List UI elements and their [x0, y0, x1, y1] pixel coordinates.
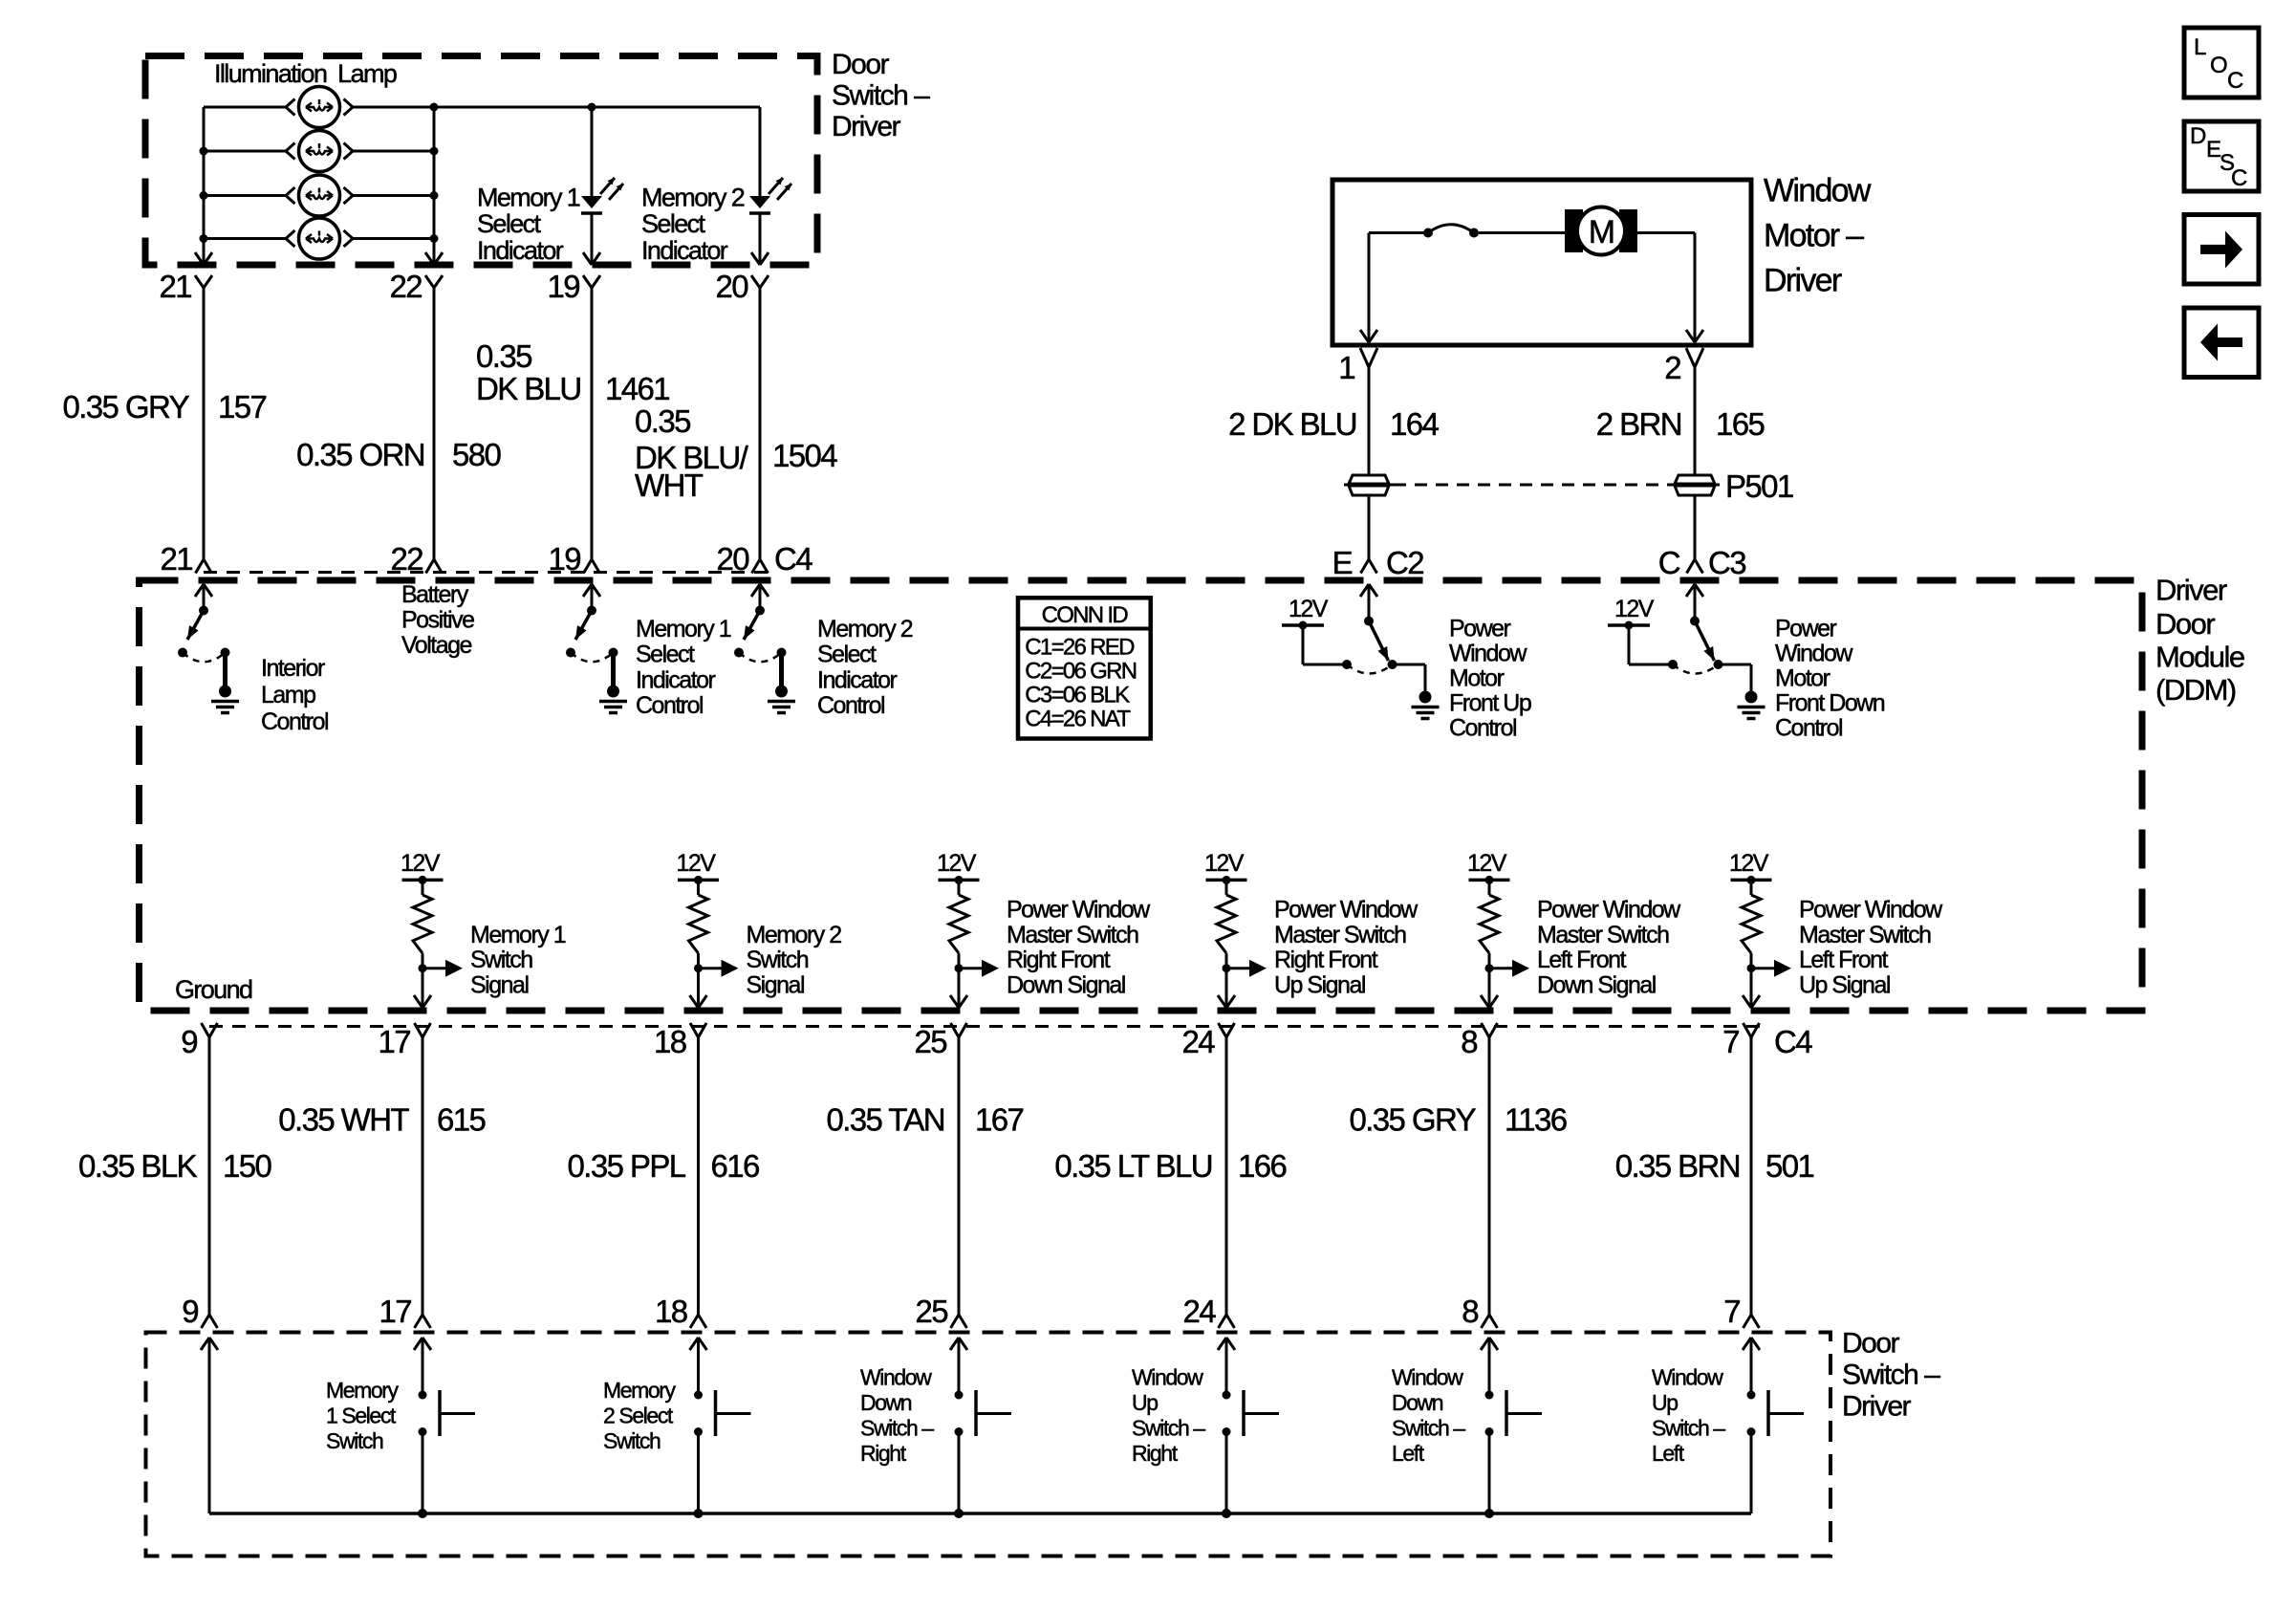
svg-text:Window: Window: [1449, 640, 1527, 666]
svg-text:Window: Window: [1775, 640, 1853, 666]
resistor R24 (pull-up): [1217, 880, 1236, 1008]
signal tap arrow (resistor 24): [1223, 960, 1267, 977]
label: Memory 2 Select Indicator: [641, 184, 745, 265]
svg-text:Voltage: Voltage: [401, 632, 472, 659]
inline connector P501 (left half): [1344, 475, 1394, 495]
label: 0.35 GRY 157: [62, 389, 266, 425]
label: Interior Lamp Control: [261, 655, 328, 735]
svg-text:19: 19: [547, 269, 579, 304]
svg-text:Power Window: Power Window: [1537, 897, 1681, 924]
arrow: wire 17 enters door switch box: [414, 1338, 431, 1350]
label: signal 18: [747, 922, 842, 998]
svg-text:25: 25: [915, 1294, 947, 1329]
label: 0.35 ORN 580: [296, 437, 501, 472]
svg-text:C1=26 RED: C1=26 RED: [1025, 635, 1135, 661]
svg-text:8: 8: [1462, 1294, 1478, 1329]
terminal 17 (door switch box): [379, 1294, 430, 1329]
svg-text:Ground: Ground: [175, 975, 252, 1004]
box: Door Switch - Driver (bottom): [146, 1333, 1831, 1557]
terminal 25 (DDM bottom): [914, 1023, 966, 1059]
svg-text:0.35: 0.35: [635, 403, 690, 439]
svg-text:0.35 PPL: 0.35 PPL: [568, 1148, 686, 1184]
terminal 2 (motor): [1664, 348, 1703, 385]
wire 157 (0.35 GRY) terminal 21 to DDM: [203, 288, 206, 559]
svg-text:0.35 BLK: 0.35 BLK: [78, 1148, 198, 1184]
svg-text:164: 164: [1390, 406, 1440, 442]
svg-text:Select: Select: [636, 642, 695, 668]
LED D1 (Memory 1 select indicator): [581, 178, 623, 265]
svg-text:12V: 12V: [1614, 596, 1655, 622]
svg-text:Control: Control: [817, 692, 884, 719]
arrow: wire 21 exits top box: [195, 252, 212, 265]
lamp L2 (illumination): [204, 131, 434, 172]
svg-text:Switch: Switch: [470, 947, 532, 973]
svg-text:0.35: 0.35: [476, 338, 531, 374]
label: Memory 1 Select Indicator: [477, 184, 580, 265]
svg-text:Memory 2: Memory 2: [641, 184, 745, 212]
svg-text:CONN ID: CONN ID: [1042, 602, 1129, 628]
svg-text:7: 7: [1722, 1024, 1739, 1059]
svg-text:Memory 1: Memory 1: [477, 184, 580, 212]
label: 0.35 BLK 150: [78, 1148, 271, 1184]
svg-text:Switch: Switch: [603, 1428, 661, 1453]
wire 616 (0.35 PPL): [697, 1037, 700, 1315]
arrow: wire 19 enters DDM: [583, 584, 600, 611]
svg-text:Up: Up: [1652, 1390, 1678, 1415]
label: Power Window Motor Front Down Control: [1775, 615, 1885, 741]
resistor R17 (pull-up): [413, 880, 432, 1008]
arrow: wire 20 enters DDM: [751, 584, 769, 611]
svg-text:0.35 BRN: 0.35 BRN: [1615, 1148, 1740, 1184]
svg-text:615: 615: [437, 1102, 486, 1138]
label: signal 7: [1799, 897, 1943, 999]
svg-text:Control: Control: [636, 692, 703, 719]
connector line C4 (DDM top): [204, 571, 770, 574]
label: switch 7: [1652, 1365, 1725, 1467]
label: signal 24: [1274, 897, 1419, 999]
terminal C C3 (DDM top): [1658, 545, 1745, 580]
12V supply (resistor 24): [1204, 850, 1247, 884]
svg-text:Signal: Signal: [470, 971, 529, 998]
svg-text:P501: P501: [1725, 468, 1793, 504]
wire: P501 to DDM terminal C: [1694, 496, 1697, 560]
push button switch 8: [1485, 1338, 1543, 1513]
arrow: wire 22 exits top box: [425, 252, 443, 265]
arrow: wire 19 exits top box: [583, 252, 600, 265]
wire 501 (0.35 BRN): [1750, 1037, 1753, 1315]
label: Illumination Lamp: [214, 59, 397, 88]
svg-text:Module: Module: [2155, 640, 2244, 673]
label: Memory 1 Select Indicator Control: [636, 616, 731, 719]
svg-text:Up Signal: Up Signal: [1274, 971, 1365, 998]
arrow: wire 20 exits top box: [751, 252, 769, 265]
terminal E C2 (DDM top): [1332, 545, 1424, 580]
12V supply (resistor 8): [1467, 850, 1510, 884]
wire 150 (0.35 BLK): [208, 1037, 211, 1315]
arrow: wire 24 enters door switch box: [1218, 1338, 1235, 1350]
terminal 21 (DDM top): [160, 541, 211, 577]
svg-text:Memory 1: Memory 1: [470, 922, 566, 948]
svg-text:Indicator: Indicator: [636, 666, 716, 693]
push button switch 18: [694, 1338, 751, 1513]
terminal 21 (top box bottom): [159, 269, 212, 304]
terminal 17 (DDM bottom): [378, 1023, 430, 1059]
svg-text:Master Switch: Master Switch: [1799, 922, 1931, 948]
wire 167 (0.35 TAN): [958, 1037, 961, 1315]
svg-text:Right: Right: [1132, 1441, 1179, 1466]
circuit breaker (motor internal): [1423, 225, 1479, 238]
svg-text:25: 25: [914, 1024, 946, 1059]
svg-text:Door: Door: [2155, 607, 2215, 641]
svg-text:O: O: [2210, 53, 2228, 78]
svg-text:Window: Window: [1392, 1365, 1463, 1390]
svg-text:Switch –: Switch –: [1652, 1416, 1725, 1441]
svg-text:Driver: Driver: [832, 111, 901, 142]
label: Ground: [175, 975, 252, 1004]
arrow: wire C enters DDM: [1686, 584, 1703, 621]
push button switch 24: [1223, 1338, 1280, 1513]
svg-text:M: M: [1589, 214, 1614, 250]
svg-text:2 Select: 2 Select: [603, 1404, 674, 1428]
arrow: wire 7 enters door switch box: [1743, 1338, 1760, 1350]
wire 166 (0.35 LT BLU): [1225, 1037, 1228, 1315]
label: signal 8: [1537, 897, 1681, 999]
terminal 20 (top box bottom): [715, 269, 769, 304]
svg-text:17: 17: [378, 1024, 410, 1059]
svg-text:Down: Down: [1392, 1390, 1443, 1415]
label: 0.35 WHT 615: [278, 1102, 485, 1138]
svg-text:167: 167: [975, 1102, 1024, 1138]
svg-text:Master Switch: Master Switch: [1007, 922, 1138, 948]
svg-text:D: D: [2190, 123, 2206, 149]
svg-text:Indicator: Indicator: [641, 236, 728, 265]
svg-text:Driver: Driver: [2155, 574, 2227, 607]
svg-text:Right: Right: [860, 1441, 907, 1466]
svg-text:20: 20: [715, 269, 748, 304]
svg-text:C4: C4: [1774, 1024, 1812, 1059]
label: switch 17: [326, 1378, 400, 1453]
wire: motor feed left (inside box): [1369, 233, 1428, 343]
label: Door Switch - Driver (bottom): [1842, 1328, 1940, 1423]
svg-text:9: 9: [182, 1294, 198, 1329]
label: C4 (DDM bottom): [1774, 1024, 1812, 1059]
svg-text:2 DK BLU: 2 DK BLU: [1228, 406, 1356, 442]
wire 165 (2 BRN) motor 2 to P501: [1694, 367, 1697, 474]
arrow: wire 18 exits DDM: [690, 995, 707, 1008]
label: 2 DK BLU 164: [1228, 406, 1439, 442]
terminal 18 (DDM bottom): [654, 1023, 706, 1059]
icon: LOC box: [2184, 28, 2259, 98]
svg-text:0.35 WHT: 0.35 WHT: [278, 1102, 409, 1138]
svg-text:Signal: Signal: [747, 971, 805, 998]
box: Driver Door Module (DDM): [140, 580, 2143, 1011]
wire: breaker to motor: [1479, 231, 1565, 234]
arrow: wire 8 exits DDM: [1481, 995, 1498, 1008]
resistor R7 (pull-up): [1742, 880, 1761, 1008]
resistor R8 (pull-up): [1480, 880, 1499, 1008]
svg-text:7: 7: [1723, 1294, 1740, 1329]
svg-text:2 BRN: 2 BRN: [1596, 406, 1681, 442]
lamp L4 (illumination): [204, 218, 434, 259]
terminal 9 (DDM bottom): [181, 1023, 217, 1059]
svg-text:Memory: Memory: [603, 1378, 677, 1403]
terminal 19 (top box bottom): [547, 269, 600, 304]
svg-text:Power: Power: [1775, 615, 1837, 642]
terminal 20 (DDM top): [716, 541, 768, 577]
svg-text:E: E: [1332, 545, 1353, 580]
svg-text:Window: Window: [1764, 173, 1872, 209]
wire 615 (0.35 WHT): [422, 1037, 424, 1315]
resistor R18 (pull-up): [689, 880, 708, 1008]
svg-text:24: 24: [1181, 1024, 1215, 1059]
wire: illumination lamp left bus (to terminal 21): [200, 107, 208, 265]
svg-text:0.35 ORN: 0.35 ORN: [296, 437, 424, 472]
svg-text:Power Window: Power Window: [1274, 897, 1419, 924]
label: C4 (DDM top): [774, 541, 812, 577]
svg-text:1504: 1504: [772, 438, 837, 473]
svg-text:C: C: [1658, 545, 1680, 580]
LED D2 (Memory 2 select indicator): [749, 178, 791, 265]
lamp L1 (illumination): [204, 87, 434, 128]
svg-text:WHT: WHT: [635, 468, 704, 503]
switch: Memory 2 Select Indicator Control: [734, 606, 795, 713]
wire: ground bus feed (terminal 9): [208, 1338, 211, 1513]
signal tap arrow (resistor 18): [694, 960, 739, 977]
svg-text:22: 22: [390, 541, 422, 577]
svg-text:Lamp: Lamp: [261, 682, 315, 708]
label: switch 8: [1392, 1365, 1465, 1467]
svg-text:C: C: [2227, 68, 2243, 94]
svg-text:Select: Select: [817, 642, 877, 668]
switch: Memory 1 Select Indicator Control: [566, 606, 627, 713]
wire: ground bus (door switch box): [209, 1509, 1751, 1518]
svg-text:Select: Select: [477, 209, 542, 238]
label: Door Switch - Driver (top): [832, 49, 930, 142]
svg-text:616: 616: [711, 1148, 760, 1184]
connector line C4 (DDM bottom): [209, 1025, 1764, 1028]
svg-text:21: 21: [160, 541, 192, 577]
12V supply (resistor 25): [937, 850, 980, 884]
inline connector P501 (right half): [1670, 475, 1720, 495]
switch: Interior Lamp Control: [178, 606, 239, 713]
svg-text:12V: 12V: [401, 850, 441, 877]
arrow: wire 24 exits DDM: [1218, 995, 1235, 1008]
svg-text:Memory: Memory: [326, 1378, 400, 1403]
svg-text:12V: 12V: [1204, 850, 1245, 877]
svg-text:Power Window: Power Window: [1007, 897, 1151, 924]
box: Door Switch - Driver (top): [145, 56, 817, 266]
svg-text:Left Front: Left Front: [1799, 947, 1889, 973]
wire 1461 (0.35 DK BLU) terminal 19 to DDM: [591, 288, 594, 559]
terminal 9 (door switch box): [182, 1294, 217, 1329]
push button switch 7: [1747, 1338, 1805, 1513]
svg-text:Control: Control: [261, 708, 328, 735]
svg-text:21: 21: [159, 269, 191, 304]
svg-text:1 Select: 1 Select: [326, 1404, 397, 1428]
arrow: wire 18 enters door switch box: [690, 1338, 707, 1350]
svg-text:0.35 LT BLU: 0.35 LT BLU: [1054, 1148, 1212, 1184]
svg-text:22: 22: [389, 269, 422, 304]
wire 164 (2 DK BLU) motor 1 to P501: [1368, 367, 1371, 474]
terminal 22 (top box bottom): [389, 269, 443, 304]
motor M (window motor): [1565, 207, 1637, 255]
wire 1136 (0.35 GRY): [1488, 1037, 1491, 1315]
svg-text:Memory 2: Memory 2: [747, 922, 842, 948]
label: 0.35 DK BLU 1461: [476, 338, 669, 406]
svg-text:18: 18: [654, 1024, 686, 1059]
svg-text:C3: C3: [1708, 545, 1745, 580]
label: 0.35 TAN 167: [826, 1102, 1023, 1138]
svg-text:Right Front: Right Front: [1007, 947, 1111, 973]
wire: top feed to indicator LEDs: [434, 103, 760, 197]
svg-text:Down Signal: Down Signal: [1007, 971, 1125, 998]
svg-text:18: 18: [655, 1294, 687, 1329]
svg-text:Motor –: Motor –: [1764, 218, 1864, 254]
svg-text:Window: Window: [1132, 1365, 1203, 1390]
12V supply (resistor 18): [677, 850, 720, 884]
wire: illumination lamp right bus (to terminal 22): [430, 103, 439, 266]
svg-text:C4=26 NAT: C4=26 NAT: [1025, 707, 1131, 732]
svg-text:580: 580: [452, 437, 502, 472]
arrow: wire 25 exits DDM: [950, 995, 967, 1008]
terminal 24 (door switch box): [1182, 1294, 1234, 1329]
label: signal 25: [1007, 897, 1151, 999]
svg-text:1461: 1461: [605, 371, 669, 406]
wire 1504 (0.35 DK BLU/WHT) terminal 20 to DDM: [759, 288, 762, 559]
icon: forward arrow box: [2184, 215, 2259, 285]
svg-text:Door: Door: [1842, 1328, 1900, 1360]
arrow: wire 7 exits DDM: [1743, 995, 1760, 1008]
svg-text:Driver: Driver: [1764, 263, 1842, 299]
label: 0.35 GRY 1136: [1349, 1102, 1566, 1138]
box: Window Motor - Driver: [1332, 180, 1751, 345]
label: Driver Door Module (DDM): [2155, 574, 2244, 707]
svg-text:C4: C4: [774, 541, 812, 577]
svg-text:12V: 12V: [937, 850, 977, 877]
switch: Power Window Motor Front Up Control: [1282, 617, 1440, 719]
label: switch 18: [603, 1378, 677, 1453]
svg-text:Switch –: Switch –: [1842, 1360, 1940, 1391]
label: 0.35 DK BLU/WHT 1504: [635, 403, 837, 503]
signal tap arrow (resistor 7): [1747, 960, 1792, 977]
svg-text:Power: Power: [1449, 615, 1511, 642]
terminal 7 (DDM bottom): [1722, 1023, 1759, 1059]
svg-text:Motor: Motor: [1449, 665, 1505, 692]
signal tap arrow (resistor 25): [955, 960, 1000, 977]
arrow: wire E enters DDM: [1360, 584, 1377, 621]
svg-text:Driver: Driver: [1842, 1390, 1912, 1422]
terminal 22 (DDM top): [390, 541, 442, 577]
table: CONN ID: [1018, 598, 1151, 738]
svg-text:1136: 1136: [1505, 1102, 1567, 1138]
12V supply (resistor 17): [401, 850, 444, 884]
svg-text:Left: Left: [1392, 1441, 1425, 1466]
svg-text:Control: Control: [1775, 715, 1842, 742]
svg-text:Left: Left: [1652, 1441, 1685, 1466]
svg-text:166: 166: [1238, 1148, 1287, 1184]
arrow: wire 17 exits DDM: [414, 995, 431, 1008]
svg-text:Memory 2: Memory 2: [817, 616, 913, 642]
wire 580 (0.35 ORN) terminal 22 to DDM: [433, 288, 436, 559]
svg-text:Switch –: Switch –: [1392, 1416, 1465, 1441]
lamp L3 (illumination): [204, 175, 434, 216]
svg-text:(DDM): (DDM): [2155, 673, 2236, 707]
svg-text:DK BLU: DK BLU: [476, 371, 581, 406]
svg-text:Battery: Battery: [401, 581, 469, 608]
svg-text:19: 19: [548, 541, 580, 577]
svg-text:Down: Down: [860, 1390, 912, 1415]
resistor R25 (pull-up): [949, 880, 968, 1008]
svg-text:Interior: Interior: [261, 655, 325, 682]
svg-text:C2=06 GRN: C2=06 GRN: [1025, 659, 1136, 685]
svg-text:501: 501: [1765, 1148, 1814, 1184]
svg-text:Illumination Lamp: Illumination Lamp: [214, 59, 397, 88]
svg-text:Positive: Positive: [401, 607, 474, 634]
svg-text:8: 8: [1461, 1024, 1477, 1059]
svg-text:Switch: Switch: [326, 1428, 383, 1453]
svg-text:157: 157: [218, 389, 267, 425]
svg-text:20: 20: [716, 541, 749, 577]
svg-text:Up: Up: [1132, 1390, 1158, 1415]
arrow: wire 9 enters door switch box: [201, 1338, 218, 1350]
label: 0.35 PPL 616: [568, 1148, 759, 1184]
svg-text:Right Front: Right Front: [1274, 947, 1378, 973]
terminal 8 (DDM bottom): [1461, 1023, 1497, 1059]
svg-text:Indicator: Indicator: [817, 666, 898, 693]
svg-text:12V: 12V: [677, 850, 717, 877]
svg-text:24: 24: [1182, 1294, 1216, 1329]
svg-text:Master Switch: Master Switch: [1537, 922, 1669, 948]
signal tap arrow (resistor 17): [419, 960, 464, 977]
terminal 24 (DDM bottom): [1181, 1023, 1234, 1059]
svg-text:9: 9: [181, 1024, 197, 1059]
arrow: wire 21 enters DDM: [195, 584, 212, 611]
label: 0.35 BRN 501: [1615, 1148, 1814, 1184]
icon: back arrow box: [2184, 308, 2259, 378]
svg-text:C3=06 BLK: C3=06 BLK: [1025, 683, 1130, 708]
svg-text:12V: 12V: [1467, 850, 1507, 877]
arrow: motor wire 1 exits box: [1360, 330, 1377, 342]
label: 0.35 LT BLU 166: [1054, 1148, 1286, 1184]
12V supply (resistor 7): [1729, 850, 1772, 884]
wire: P501 to DDM terminal E: [1368, 496, 1371, 560]
label: switch 24: [1132, 1365, 1205, 1467]
svg-text:Front Down: Front Down: [1775, 690, 1885, 717]
push button switch 17: [419, 1338, 476, 1513]
svg-text:Door: Door: [832, 49, 890, 80]
push button switch 25: [955, 1338, 1012, 1513]
svg-text:0.35 GRY: 0.35 GRY: [1349, 1102, 1476, 1138]
svg-text:12V: 12V: [1729, 850, 1769, 877]
svg-text:C2: C2: [1386, 545, 1423, 580]
svg-text:2: 2: [1664, 350, 1680, 385]
svg-text:Indicator: Indicator: [477, 236, 564, 265]
svg-text:Switch –: Switch –: [832, 79, 930, 111]
svg-text:L: L: [2194, 34, 2206, 60]
terminal 8 (door switch box): [1462, 1294, 1497, 1329]
label: 12V (E switch): [1289, 596, 1329, 622]
svg-text:Switch: Switch: [747, 947, 809, 973]
terminal 25 (door switch box): [915, 1294, 966, 1329]
arrow: motor wire 2 exits box: [1686, 330, 1703, 342]
svg-text:Motor: Motor: [1775, 665, 1830, 692]
svg-text:Down Signal: Down Signal: [1537, 971, 1656, 998]
arrow: wire 25 enters door switch box: [950, 1338, 967, 1350]
label: P501: [1725, 468, 1793, 504]
svg-text:1: 1: [1338, 350, 1354, 385]
label: Window Motor - Driver: [1764, 173, 1872, 299]
svg-text:0.35 TAN: 0.35 TAN: [826, 1102, 944, 1138]
